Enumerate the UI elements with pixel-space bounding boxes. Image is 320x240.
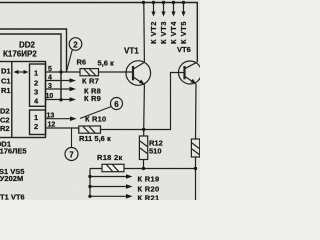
node 7 circle	[65, 148, 78, 161]
wire VT6 emitter down	[195, 84, 198, 139]
IC DD2 register section box 1	[30, 64, 46, 106]
bottom wire	[90, 168, 196, 170]
pin 4 arrow К R7	[46, 78, 77, 83]
wire leader node6	[80, 107, 111, 119]
resistor R12	[139, 130, 147, 169]
pin 5 wire to R6	[46, 71, 81, 73]
wire R11 to junction	[101, 129, 144, 131]
svg-text:VT1: VT1	[124, 47, 139, 56]
svg-text:6: 6	[114, 100, 119, 109]
svg-text:К R7: К R7	[82, 76, 99, 85]
svg-text:2: 2	[34, 78, 38, 87]
wire leader node2	[67, 50, 73, 72]
svg-text:5,6 к: 5,6 к	[98, 59, 115, 68]
svg-text:7: 7	[69, 151, 74, 160]
node 2 circle	[69, 38, 82, 51]
resistor R13 right	[191, 139, 199, 200]
wire leader node7	[71, 128, 73, 148]
svg-text:R11 5,6 к: R11 5,6 к	[79, 134, 111, 143]
svg-text:D2: D2	[0, 107, 10, 116]
pin 12 wire to R11	[46, 128, 79, 130]
svg-text:R6: R6	[77, 58, 87, 67]
wire bus C	[0, 34, 61, 100]
svg-text:К R9: К R9	[84, 94, 101, 103]
svg-text:К VT5: К VT5	[179, 21, 188, 44]
svg-text:R1: R1	[1, 86, 11, 95]
svg-text:К176ИР2: К176ИР2	[3, 50, 37, 59]
branch arrow К R20	[88, 184, 132, 189]
junction pin10	[59, 98, 62, 101]
wire bus B	[0, 29, 67, 72]
node 6 circle	[111, 98, 123, 110]
svg-text:К R10: К R10	[85, 115, 106, 124]
svg-text:1: 1	[34, 113, 38, 122]
branch arrow К R19	[88, 174, 132, 179]
junction dots top bus	[142, 1, 185, 4]
wire R6 to VT1 base	[99, 71, 134, 73]
svg-text:К VT4: К VT4	[169, 21, 178, 44]
svg-text:R2: R2	[0, 124, 10, 133]
bidirectional arrow symbol	[14, 70, 29, 74]
arrow to VT4	[171, 3, 175, 17]
svg-text:D1: D1	[1, 67, 11, 76]
svg-text:К R21: К R21	[138, 194, 160, 201]
svg-text:2: 2	[34, 122, 38, 131]
arrow to VT5	[181, 3, 185, 17]
arrow to VT3	[161, 3, 165, 17]
wire VT1 collector up	[143, 3, 146, 63]
wire VT6 base	[144, 73, 185, 130]
IC DD2 register section box 2	[30, 110, 46, 135]
svg-text:510: 510	[149, 147, 162, 156]
svg-text:C1: C1	[1, 76, 11, 85]
wire VT1 emitter down	[143, 85, 146, 130]
junction pin5	[59, 70, 62, 73]
wire top bus A	[0, 3, 197, 63]
svg-text:3: 3	[34, 88, 38, 97]
pin 13 arrow К R10	[46, 116, 77, 121]
svg-text:DD2: DD2	[19, 41, 36, 50]
svg-text:КУ202М: КУ202М	[0, 174, 23, 183]
pin 10 arrow К R9	[46, 97, 77, 102]
svg-text:2: 2	[73, 41, 78, 50]
pin 3 arrow К R8	[46, 87, 77, 92]
resistor R18	[102, 164, 124, 171]
arrow to VT2	[151, 3, 155, 17]
svg-text:К VT3: К VT3	[159, 21, 168, 44]
resistor R11	[79, 126, 101, 133]
branch arrow К R21	[88, 194, 132, 199]
left drop wire with branches	[89, 169, 91, 198]
svg-text:К R20: К R20	[138, 185, 160, 194]
svg-text:VT1 VT6: VT1 VT6	[0, 193, 25, 201]
svg-text:К VT2: К VT2	[149, 21, 158, 44]
svg-text:VT6: VT6	[177, 45, 191, 54]
svg-text:К R19: К R19	[138, 175, 160, 184]
IC DD2 outer box	[0, 62, 46, 138]
svg-text:1: 1	[34, 69, 38, 78]
resistor R6	[80, 69, 99, 76]
junction VT1 emitter / R12	[142, 128, 145, 131]
svg-text:К176ЛЕ5: К176ЛЕ5	[0, 147, 27, 156]
svg-text:R18 2к: R18 2к	[97, 153, 123, 162]
